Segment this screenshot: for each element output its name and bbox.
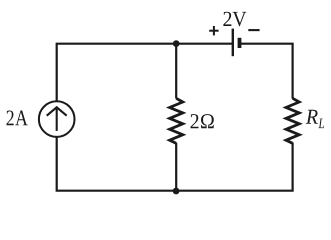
node: bottom junction dot	[173, 188, 180, 195]
label RL: R	[306, 110, 318, 124]
wire: left branch and top-left segment to battery + plate	[57, 44, 233, 101]
wire: bottom loop (right branch bottom, bottom rail, left branch bottom)	[57, 137, 293, 190]
battery V1 short plate (-)	[238, 38, 242, 48]
battery V1 long plate (+)	[232, 29, 234, 57]
battery polarity minus sign	[248, 29, 259, 31]
node: top junction dot	[173, 40, 180, 47]
resistor R1 (2 ohm) zigzag	[170, 98, 183, 143]
label 2 ohm (resistor value)	[191, 114, 214, 128]
battery polarity plus sign	[209, 26, 218, 35]
resistor RL zigzag	[286, 98, 299, 143]
label RL: L subscript	[318, 119, 324, 129]
label 2A (current source value)	[7, 111, 28, 126]
label 2V (battery value)	[223, 12, 246, 27]
wire: middle branch top (junction to 2-ohm resistor)	[175, 44, 177, 99]
wire: top-right segment from battery - plate to right branch top	[240, 44, 293, 99]
wire: middle branch bottom (2-ohm resistor to junction)	[175, 143, 177, 191]
current source I1 arrow	[47, 107, 67, 131]
current source I1 (2A) circle	[39, 101, 75, 137]
